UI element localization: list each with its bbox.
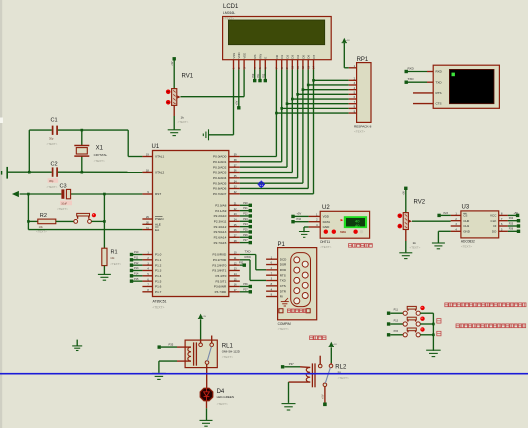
svg-text:D4: D4 — [296, 55, 300, 59]
svg-text:<TEXT>: <TEXT> — [47, 185, 58, 189]
wire U2 VDD — [295, 215, 309, 217]
push button 2 — [403, 317, 420, 326]
wires P2.0-P2.7 to net terminals — [240, 205, 249, 242]
RP1 pins — [349, 68, 357, 113]
ground under RV2 — [399, 253, 412, 259]
svg-text:P3.6/WR: P3.6/WR — [214, 285, 227, 289]
wire U3 GND to ground — [438, 231, 450, 242]
svg-text:AT89C51: AT89C51 — [153, 299, 167, 303]
svg-text:RTS: RTS — [436, 91, 442, 95]
svg-text:P27: P27 — [243, 239, 248, 242]
svg-text:<TEXT>: <TEXT> — [36, 230, 47, 234]
wire P3.2 to terminal — [240, 264, 243, 266]
svg-text:DO: DO — [492, 230, 497, 234]
label jia (red) — [437, 319, 441, 324]
svg-text:P0.2/AD2: P0.2/AD2 — [213, 165, 227, 169]
annotation line 1 (red) — [445, 303, 526, 307]
LCD1 label — [223, 4, 239, 20]
svg-text:P1.4: P1.4 — [155, 274, 162, 278]
svg-text:P1.2: P1.2 — [155, 263, 162, 267]
svg-text:DI: DI — [493, 224, 496, 228]
svg-text:P0.4/AD4: P0.4/AD4 — [213, 176, 227, 180]
P1 pins — [266, 259, 278, 296]
U3 labels — [461, 204, 475, 248]
svg-text:XTAL2: XTAL2 — [155, 171, 165, 175]
svg-text:R1: R1 — [111, 249, 118, 255]
microcontroller U1 AT89C51 body — [153, 151, 229, 297]
terminal P37 at U1 — [243, 288, 252, 293]
virtual terminal screen — [449, 69, 494, 103]
svg-text:P35: P35 — [169, 342, 174, 346]
svg-text:D0: D0 — [275, 55, 279, 59]
svg-text:P2.4/A12: P2.4/A12 — [214, 225, 227, 229]
svg-text:P2.6/A14: P2.6/A14 — [214, 235, 227, 239]
junction C3 right / R1 node — [103, 193, 106, 196]
D4 labels — [217, 389, 235, 406]
svg-text:P37: P37 — [243, 288, 248, 291]
terminal +5V at U2 — [291, 212, 301, 218]
svg-text:P2.3/A11: P2.3/A11 — [214, 219, 227, 223]
svg-text:%RH: %RH — [340, 230, 346, 234]
wire LCD VSS to ground — [209, 70, 234, 135]
svg-text:OMI-SH-112D: OMI-SH-112D — [222, 349, 240, 353]
svg-text:<TEXT>: <TEXT> — [320, 245, 331, 249]
svg-text:P1.1: P1.1 — [155, 258, 162, 262]
svg-text:P20: P20 — [252, 73, 255, 78]
svg-text:ALE: ALE — [155, 223, 161, 227]
wire button 3 to bus — [420, 334, 433, 336]
svg-text:P3.0/RXD: P3.0/RXD — [213, 253, 228, 257]
wire LCD VEE to RV1 wiper — [181, 70, 245, 97]
LCD1 pin name labels — [232, 52, 316, 58]
svg-text:P12: P12 — [134, 262, 139, 265]
terminal P13 at button 2 — [387, 319, 399, 325]
U1 labels — [152, 144, 167, 309]
terminal P37 at RL2 coil — [281, 362, 294, 369]
RV2 adjust buttons — [398, 214, 403, 229]
wire RL2 common to terminal — [324, 387, 326, 403]
terminal P36 — [243, 283, 252, 288]
svg-text:VCC: VCC — [490, 214, 497, 218]
U2 buttons and indicator — [324, 230, 364, 235]
svg-text:P1.5: P1.5 — [155, 279, 162, 283]
svg-text:P2.7/A15: P2.7/A15 — [214, 241, 227, 245]
svg-text:P21: P21 — [257, 73, 260, 78]
wires P1.0-P1.5 to net terminals — [133, 255, 142, 282]
svg-text:ADC0832: ADC0832 — [461, 240, 475, 244]
svg-text:<TEXT>: <TEXT> — [110, 262, 121, 266]
P1 pin name labels — [280, 257, 287, 298]
terminal P32 — [239, 262, 246, 267]
U3 pin numbers — [455, 213, 503, 232]
annotation text above RL2 (red) — [0, 0, 1, 1]
virtual terminal pin labels — [436, 70, 443, 106]
svg-text:+5V: +5V — [297, 212, 302, 216]
button 3 red dot — [420, 327, 424, 331]
ground at U3 — [432, 243, 445, 249]
junction C2 left — [28, 171, 31, 174]
svg-text:1k: 1k — [181, 115, 185, 119]
LCD1 pins — [234, 60, 314, 70]
wire C3 net to RST — [20, 193, 143, 195]
svg-text:30p: 30p — [49, 137, 54, 141]
svg-text:P13: P13 — [394, 319, 399, 322]
svg-text:P1.7: P1.7 — [155, 290, 162, 294]
button 2 red dot — [420, 317, 424, 321]
svg-text:RXD: RXD — [280, 268, 287, 272]
svg-text:GND: GND — [463, 230, 471, 234]
svg-text:PSEN: PSEN — [155, 217, 163, 221]
svg-text:P0.1/AD1: P0.1/AD1 — [213, 160, 227, 164]
wire +5V to RL2 switch — [330, 347, 332, 364]
svg-text:P26: P26 — [509, 228, 514, 231]
wire U2 DATA — [295, 221, 309, 223]
resistor R1 — [102, 248, 122, 266]
svg-text:P26: P26 — [243, 234, 248, 237]
svg-text:P23: P23 — [444, 212, 449, 215]
left window edge strip — [0, 0, 3, 428]
wire RST node down to R1 — [103, 194, 105, 248]
svg-text:DHT11: DHT11 — [320, 240, 330, 244]
svg-text:+5V: +5V — [514, 212, 519, 215]
svg-text:P20: P20 — [243, 202, 248, 205]
svg-text:+5V: +5V — [321, 394, 324, 399]
svg-text:<TEXT>: <TEXT> — [94, 159, 105, 163]
svg-text:P3.7/RD: P3.7/RD — [215, 290, 227, 294]
svg-text:P21: P21 — [243, 207, 248, 210]
ground at RL2 coil — [282, 404, 296, 410]
svg-text:P11: P11 — [394, 309, 399, 312]
svg-text:P24: P24 — [509, 217, 514, 220]
svg-text:10k: 10k — [39, 225, 44, 229]
svg-text:10k: 10k — [110, 256, 115, 260]
annotation sensor text (red) — [349, 244, 373, 248]
wire RV1 top — [173, 61, 175, 89]
resistor pack RP1 body — [357, 63, 371, 123]
junction R2 left — [27, 220, 30, 223]
svg-text:40: 40 — [355, 223, 360, 228]
svg-text:D5: D5 — [301, 55, 305, 59]
ground under RV1 — [168, 130, 181, 136]
LCD1 screen — [228, 20, 324, 45]
U1 left pins — [142, 157, 152, 292]
wire P3.7 to terminal — [240, 291, 249, 293]
svg-text:CTS: CTS — [280, 284, 286, 288]
terminals P24 P25 P26 — [509, 217, 521, 233]
button ground bus — [432, 313, 434, 351]
svg-text:LM016L: LM016L — [223, 11, 235, 15]
led D4 LED-GREEN — [200, 388, 213, 401]
LCD LCD1 body (LM016L) — [223, 17, 332, 60]
wire button 2 to bus — [420, 323, 433, 325]
wire C2 net to XTAL2 — [7, 171, 142, 173]
wire C1 top net to XTAL1 — [29, 130, 142, 156]
svg-text:+5V: +5V — [402, 191, 405, 196]
svg-text:+5V: +5V — [346, 40, 350, 42]
wire LCD VDD to +5V terminal — [238, 70, 240, 108]
ground at U2 — [299, 232, 310, 238]
svg-text:CH1: CH1 — [463, 224, 469, 228]
wire to button 1 — [390, 312, 403, 314]
wires RP1 pull-up rows to bus — [276, 80, 348, 113]
svg-text:P10: P10 — [297, 217, 302, 221]
capacitor C1 — [47, 118, 58, 147]
svg-text:CRYSTAL: CRYSTAL — [94, 153, 108, 157]
svg-text:RXD: RXD — [408, 66, 415, 70]
RL1 switch contacts — [199, 336, 214, 365]
svg-text:P3.4/T0: P3.4/T0 — [215, 274, 226, 278]
RL1 coil — [185, 342, 196, 365]
svg-text:+5V: +5V — [202, 316, 206, 318]
svg-text:CTS: CTS — [436, 102, 442, 106]
svg-text:P14: P14 — [134, 272, 139, 275]
svg-text:X1: X1 — [96, 146, 104, 152]
ground terminal at C2 — [2, 167, 8, 179]
wire RXD terminal — [407, 71, 427, 73]
RL2 switch blade — [325, 368, 330, 384]
ground at RL1 coil — [152, 373, 166, 379]
svg-text:+5V: +5V — [333, 344, 337, 346]
svg-text:P2.0/A8: P2.0/A8 — [215, 204, 226, 208]
svg-text:P23: P23 — [243, 218, 248, 221]
wires LCD D0-D7 verticals — [276, 70, 313, 194]
svg-text:<TEXT>: <TEXT> — [461, 245, 472, 249]
label jian (red) — [437, 331, 441, 336]
svg-text:TXD: TXD — [436, 80, 443, 84]
svg-text:C2: C2 — [51, 161, 58, 167]
potentiometer RV2 — [403, 200, 426, 250]
wire P3.6 to terminal — [240, 285, 249, 287]
svg-text:P13: P13 — [134, 267, 139, 270]
capacitor C3 (polarized) — [57, 184, 72, 211]
svg-text:30p: 30p — [49, 179, 54, 183]
wire P3.0 to COMPIM RXD — [240, 249, 266, 269]
wire P3.1 to COMPIM TXD — [240, 255, 266, 281]
U1 left pin name labels — [155, 155, 165, 294]
svg-text:10uF: 10uF — [61, 201, 67, 205]
svg-text:RST: RST — [155, 192, 161, 196]
svg-text:P10: P10 — [134, 251, 139, 254]
U1 right pins — [229, 157, 240, 292]
RL1 switch blade — [207, 347, 211, 361]
junction dots on LCD data bus — [275, 79, 315, 114]
svg-text:P1.3: P1.3 — [155, 269, 162, 273]
origin marker (blue) — [258, 181, 265, 188]
svg-text:+5V: +5V — [236, 100, 239, 105]
reset button red dot — [92, 213, 96, 217]
svg-text:DCD: DCD — [280, 257, 287, 261]
svg-text:U2: U2 — [322, 205, 330, 211]
terminal P10 at U2 — [291, 217, 301, 224]
RV1 wiper — [177, 95, 180, 98]
relay RL1 body — [185, 340, 217, 368]
svg-text:RI: RI — [280, 295, 283, 299]
P1 DB9 holes — [294, 257, 308, 304]
svg-text:DSR: DSR — [280, 263, 287, 267]
annotation text near P1 (red) — [310, 336, 326, 340]
adc U3 ADC0832 body — [461, 211, 499, 238]
potentiometer RV1 — [172, 74, 194, 124]
wire U3 CS — [441, 214, 451, 216]
wire RP1 common to +5V — [344, 43, 348, 68]
svg-text:D6: D6 — [307, 55, 311, 59]
svg-text:D7: D7 — [312, 55, 316, 59]
svg-text:RXD: RXD — [245, 255, 252, 259]
svg-text:C3: C3 — [60, 184, 67, 190]
push button 1 — [403, 306, 420, 315]
P1 shell ground — [281, 298, 289, 306]
wire RL1 common to D4 — [206, 364, 208, 388]
RL2 switch contacts — [318, 356, 332, 387]
svg-text:R2: R2 — [40, 213, 47, 219]
terminal TXD — [405, 77, 415, 84]
svg-text:VSS: VSS — [232, 53, 236, 59]
svg-text:TXD: TXD — [408, 77, 415, 81]
U2 pin numbers — [316, 213, 318, 227]
svg-text:P36: P36 — [243, 283, 248, 286]
terminal +5V at U3 — [514, 212, 520, 217]
RV2 wiper — [409, 220, 412, 223]
wire RV2 wiper to U3 CH0 — [412, 220, 451, 222]
svg-text:DTR: DTR — [280, 289, 287, 293]
svg-text:<TEXT>: <TEXT> — [178, 120, 189, 124]
wire RL2 coil to ground — [289, 382, 311, 403]
svg-text:DATA: DATA — [323, 220, 331, 224]
svg-text:P11: P11 — [134, 256, 139, 259]
ground for LCD VSS — [203, 129, 208, 140]
sensor U2 DHT11 body — [320, 211, 369, 238]
RV1 adjust buttons — [166, 90, 171, 105]
svg-text:RESPACK-8: RESPACK-8 — [354, 125, 372, 129]
wire RV2 top — [405, 190, 407, 213]
junction button bus 1 — [432, 323, 435, 326]
svg-text:P0.3/AD3: P0.3/AD3 — [213, 171, 227, 175]
wires LCD RS RW E to terminals P20 P21 P22 — [255, 70, 266, 80]
RP1 pin numbers — [354, 65, 356, 113]
wire U3 VCC to +5V — [508, 214, 516, 216]
svg-text:P15: P15 — [134, 278, 139, 281]
svg-text:P0.6/AD6: P0.6/AD6 — [213, 187, 227, 191]
terminals P20-P27 — [243, 202, 252, 244]
resistor R2 — [28, 213, 73, 233]
svg-text:+5V: +5V — [171, 61, 174, 66]
svg-text:COMPIM: COMPIM — [278, 322, 291, 326]
svg-text:P1.6: P1.6 — [155, 285, 162, 289]
P1 pin numbers — [271, 256, 273, 296]
svg-text:<TEXT>: <TEXT> — [354, 129, 365, 133]
terminal RXD — [405, 66, 415, 73]
svg-text:<TEXT>: <TEXT> — [278, 327, 289, 331]
wire RV2 bottom to ground — [405, 230, 407, 253]
svg-text:1k: 1k — [413, 241, 417, 245]
terminal P15 at button 3 — [387, 330, 399, 336]
U1 right pin numbers — [234, 154, 237, 292]
wire D4 to ground — [206, 401, 208, 420]
svg-text:<TEXT>: <TEXT> — [153, 305, 165, 309]
svg-text:LED-GREEN: LED-GREEN — [217, 395, 235, 399]
svg-text:P2.1/A9: P2.1/A9 — [215, 209, 226, 213]
svg-text:<TEXT>: <TEXT> — [222, 355, 233, 359]
svg-text:RTS: RTS — [280, 273, 286, 277]
terminals P20 P21 P22 — [252, 73, 267, 82]
svg-text:C1: C1 — [51, 118, 58, 124]
svg-text:<TEXT>: <TEXT> — [217, 402, 228, 406]
svg-text:VDD: VDD — [237, 52, 241, 58]
wire RL2 coil input — [284, 366, 310, 369]
svg-text:P0.5/AD5: P0.5/AD5 — [213, 181, 227, 185]
input terminal arrow at C3 — [12, 191, 19, 197]
svg-text:P32: P32 — [239, 262, 244, 265]
wire C3 left down to R2 — [27, 194, 29, 221]
reset push button — [74, 213, 105, 223]
svg-text:VDD: VDD — [323, 215, 330, 219]
svg-text:XTAL1: XTAL1 — [155, 155, 165, 159]
svg-text:P2.5/A13: P2.5/A13 — [214, 230, 227, 234]
wire RL1 coil terminal — [161, 346, 185, 348]
junction button bus 2 — [432, 334, 435, 337]
svg-text:D3: D3 — [291, 55, 295, 59]
button 1 red dot — [420, 306, 424, 310]
svg-text:P0.7/AD7: P0.7/AD7 — [213, 192, 227, 196]
junction C3 left — [27, 193, 30, 196]
terminal P23 at U3 — [437, 212, 448, 217]
svg-text:P3.1/TXD: P3.1/TXD — [213, 258, 227, 262]
RL1 labels — [222, 343, 240, 359]
svg-text:RV1: RV1 — [182, 74, 194, 80]
virtual terminal cursor — [452, 73, 455, 77]
wire R1 to ground — [103, 266, 105, 275]
svg-text:P1.0: P1.0 — [155, 253, 162, 257]
svg-text:P1: P1 — [278, 242, 286, 248]
virtual terminal body — [433, 65, 499, 108]
svg-text:P22: P22 — [243, 213, 248, 216]
svg-text:RXD: RXD — [436, 70, 443, 74]
svg-text:E: E — [264, 57, 268, 59]
terminal P11 at button 1 — [387, 309, 399, 315]
wire to button 3 — [390, 334, 403, 336]
svg-text:D1: D1 — [280, 55, 284, 59]
svg-text:VEE: VEE — [243, 53, 247, 59]
capacitor C2 — [47, 161, 59, 188]
U2 pins — [309, 216, 321, 227]
crystal X1 — [74, 130, 107, 172]
wires P0.0-P0.7 from U1 to LCD data verticals — [240, 157, 314, 194]
RL2 labels — [335, 365, 349, 381]
U2 pin name labels — [323, 215, 331, 230]
ground under R1 — [98, 274, 111, 280]
sheet border blue line — [0, 373, 528, 375]
svg-text:<TEXT>: <TEXT> — [57, 207, 68, 211]
push button 3 — [403, 328, 420, 337]
U1 right pin name labels — [212, 155, 227, 294]
svg-text:LCD1: LCD1 — [223, 4, 239, 10]
power +5V arrow above RL1 — [198, 314, 207, 319]
ground for buttons — [426, 350, 441, 356]
wire C1 left to ground net — [28, 130, 30, 172]
U1 left pin numbers — [146, 154, 149, 292]
svg-text:RV2: RV2 — [414, 200, 426, 206]
svg-text:TXD: TXD — [280, 279, 287, 283]
ground under D4 — [200, 420, 213, 426]
U2 labels — [320, 205, 331, 249]
P1 labels — [278, 242, 292, 331]
RL2 coil — [306, 363, 315, 387]
power terminal +5V above RV1 — [171, 57, 176, 66]
svg-text:P2.2/A10: P2.2/A10 — [214, 214, 227, 218]
P1 mounting squares and red label — [279, 309, 310, 313]
svg-text:P24: P24 — [243, 223, 248, 226]
svg-text:D2: D2 — [285, 55, 289, 59]
